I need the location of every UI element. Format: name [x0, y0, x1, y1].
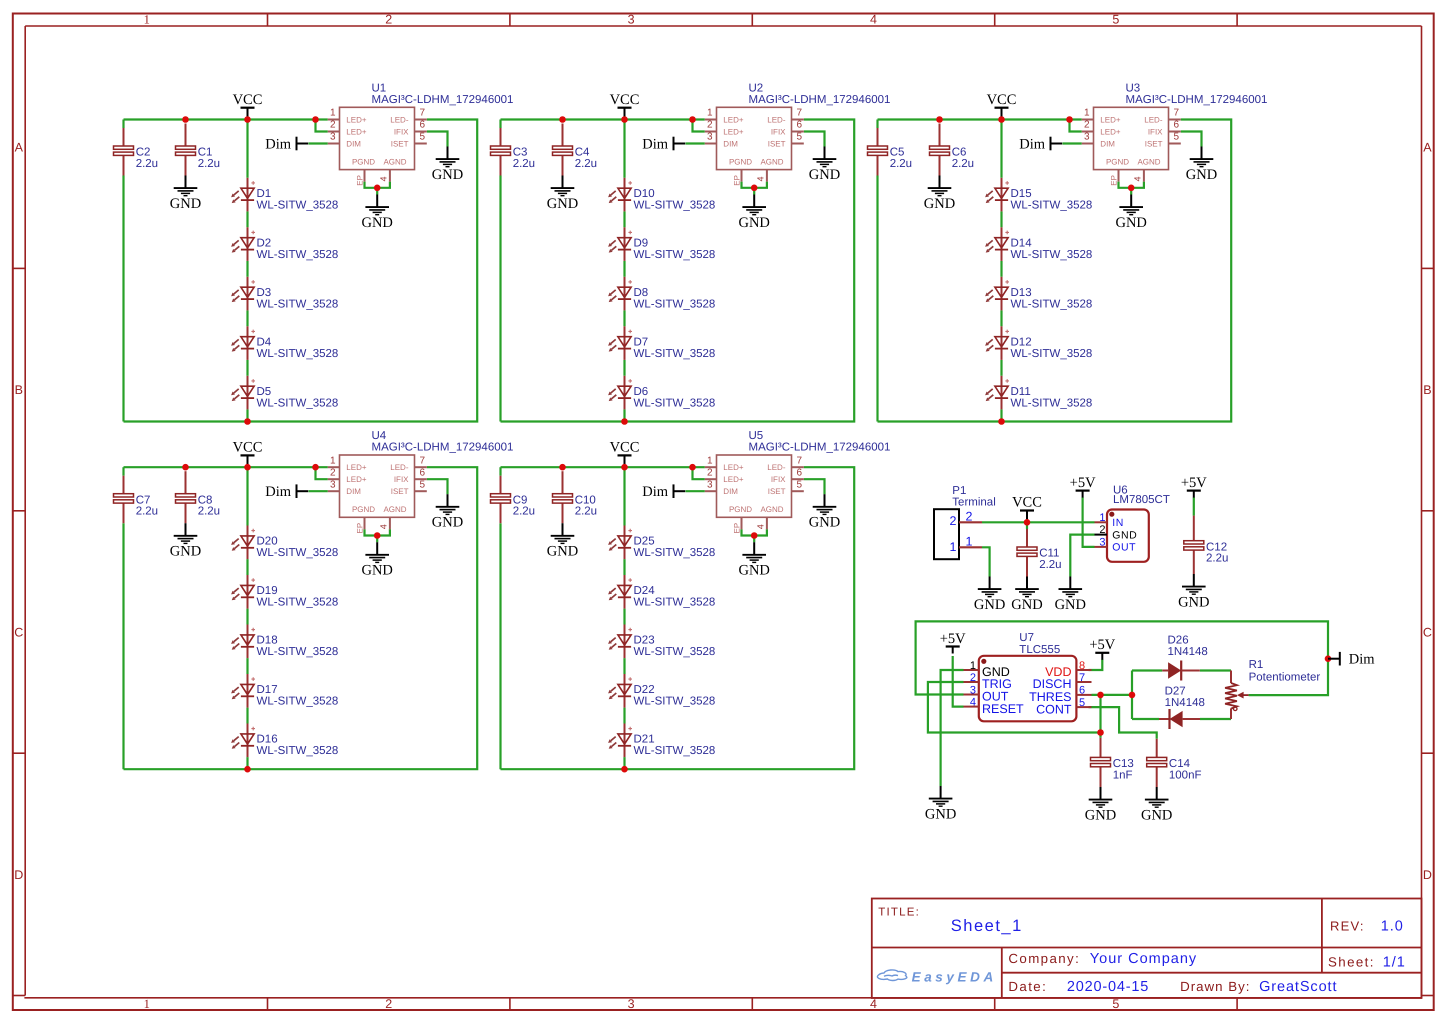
wire IFIX to gnd block 1 [427, 132, 448, 147]
wire diode/pot loop [1131, 671, 1133, 720]
svg-text:WL-SITW_3528: WL-SITW_3528 [634, 696, 716, 708]
svg-text:1: 1 [970, 660, 976, 672]
svg-text:P1: P1 [952, 485, 966, 497]
svg-text:D18: D18 [257, 635, 278, 647]
svg-text:4: 4 [970, 696, 976, 708]
pin 7 stub [1169, 119, 1181, 121]
LED D13 WL-SITW_3528 [985, 277, 1092, 311]
svg-text:VCC: VCC [233, 92, 263, 108]
diode D27 1N4148 [1159, 686, 1205, 729]
junction Dim tap [1325, 655, 1332, 662]
svg-text:2.2u: 2.2u [136, 506, 158, 518]
svg-text:GND: GND [1186, 167, 1217, 183]
svg-text:PGND: PGND [352, 505, 375, 514]
svg-text:Sheet_1: Sheet_1 [951, 917, 1023, 935]
net flag Dim block 3 [1019, 137, 1062, 153]
svg-text:1: 1 [330, 108, 336, 119]
svg-text:AGND: AGND [760, 505, 783, 514]
pin 3 stub [705, 490, 717, 492]
wire LED string block 5 [623, 467, 625, 525]
svg-text:REV:: REV: [1330, 919, 1365, 934]
svg-text:WL-SITW_3528: WL-SITW_3528 [634, 745, 716, 757]
svg-text:LED+: LED+ [723, 115, 744, 124]
svg-text:WL-SITW_3528: WL-SITW_3528 [634, 398, 716, 410]
wire VCC rail net block 4 [124, 466, 328, 468]
svg-text:MAGI³C-LDHM_172946001: MAGI³C-LDHM_172946001 [749, 442, 891, 454]
svg-text:1: 1 [144, 997, 150, 1011]
svg-text:LED-: LED- [390, 463, 409, 472]
ground below C1 [170, 176, 201, 212]
svg-text:C6: C6 [952, 147, 967, 159]
svg-text:Potentiometer: Potentiometer [1249, 672, 1321, 684]
svg-text:B: B [1423, 383, 1431, 397]
junction EP/AGND tie [751, 532, 758, 539]
pin 5 stub [792, 143, 804, 145]
wire P1 pin1 to gnd [982, 547, 990, 576]
svg-text:2.2u: 2.2u [198, 506, 220, 518]
svg-text:U3: U3 [1126, 83, 1141, 95]
ground below C4 [547, 176, 578, 212]
junction EP/AGND tie [374, 532, 381, 539]
svg-text:RESET: RESET [982, 702, 1024, 716]
wire exposed pad gnd block 3 [1119, 182, 1144, 188]
svg-text:2: 2 [970, 672, 976, 684]
junction pin2 tap [1066, 116, 1073, 123]
svg-text:WL-SITW_3528: WL-SITW_3528 [257, 597, 339, 609]
svg-text:6: 6 [420, 120, 426, 131]
capacitor C9 2.2u [491, 476, 536, 524]
pin 6 stub [1169, 131, 1181, 133]
svg-text:2020-04-15: 2020-04-15 [1067, 979, 1149, 995]
title block [872, 899, 1422, 999]
pin 1 GND stub [964, 669, 979, 671]
svg-text:D13: D13 [1011, 287, 1032, 299]
LED D23 WL-SITW_3528 [608, 625, 715, 659]
junction VCC/LED tap [998, 116, 1005, 123]
svg-text:LED+: LED+ [723, 127, 744, 136]
svg-text:D21: D21 [634, 734, 655, 746]
svg-text:GND: GND [170, 196, 201, 212]
svg-text:Dim: Dim [1349, 652, 1376, 668]
wire THRES to C13 [1099, 695, 1101, 738]
LED D3 WL-SITW_3528 [231, 277, 338, 311]
svg-text:GND: GND [361, 563, 392, 579]
svg-text:D5: D5 [257, 386, 272, 398]
ground below IFIX [1186, 147, 1217, 183]
svg-text:2: 2 [385, 997, 392, 1011]
svg-text:2.2u: 2.2u [952, 158, 974, 170]
junction diode loop tap [1129, 692, 1136, 699]
capacitor C11 2.2u [1017, 529, 1062, 577]
svg-text:4: 4 [870, 997, 877, 1011]
svg-text:4: 4 [870, 13, 877, 27]
svg-text:WL-SITW_3528: WL-SITW_3528 [634, 597, 716, 609]
svg-text:7: 7 [797, 108, 803, 119]
svg-text:ISET: ISET [768, 487, 786, 496]
svg-text:2: 2 [707, 120, 713, 131]
svg-text:D26: D26 [1168, 635, 1189, 647]
svg-text:GreatScott: GreatScott [1259, 979, 1337, 995]
svg-text:WL-SITW_3528: WL-SITW_3528 [257, 249, 339, 261]
svg-text:GND: GND [1141, 807, 1172, 823]
svg-text:100nF: 100nF [1169, 769, 1202, 781]
svg-text:WL-SITW_3528: WL-SITW_3528 [1011, 249, 1093, 261]
svg-text:GND: GND [1115, 215, 1146, 231]
svg-text:3: 3 [1084, 132, 1090, 143]
svg-text:GND: GND [924, 196, 955, 212]
junction pin2 tap [312, 116, 319, 123]
pin 1 stub [328, 119, 340, 121]
svg-text:LED+: LED+ [346, 115, 367, 124]
LED D21 WL-SITW_3528 [608, 724, 715, 758]
pin 3 OUT stub [1095, 546, 1108, 548]
junction pin2 tap [689, 464, 696, 471]
svg-text:ISET: ISET [391, 487, 409, 496]
ground below U6 GND [1055, 577, 1086, 613]
svg-text:WL-SITW_3528: WL-SITW_3528 [1011, 398, 1093, 410]
svg-text:3: 3 [330, 479, 336, 490]
svg-text:U5: U5 [749, 430, 764, 442]
svg-text:PGND: PGND [352, 158, 375, 167]
pin 2 GND stub [1095, 534, 1108, 536]
svg-text:1nF: 1nF [1113, 769, 1133, 781]
capacitor C1 2.2u [176, 124, 221, 176]
net flag Dim 555 output [1328, 652, 1375, 668]
pin 2 stub [328, 131, 340, 133]
svg-text:+5V: +5V [1070, 475, 1096, 491]
svg-text:1: 1 [144, 13, 150, 27]
svg-text:TLC555: TLC555 [1019, 644, 1060, 656]
svg-text:5: 5 [1174, 132, 1180, 143]
svg-text:MAGI³C-LDHM_172946001: MAGI³C-LDHM_172946001 [372, 94, 514, 106]
LED D7 WL-SITW_3528 [608, 326, 715, 360]
svg-text:1N4148: 1N4148 [1165, 697, 1205, 709]
wire LED- return loop block 4 [124, 467, 478, 769]
svg-text:2: 2 [707, 467, 713, 478]
pin 7 stub [415, 119, 427, 121]
LED D22 WL-SITW_3528 [608, 674, 715, 708]
wire LED string block 3 [1000, 120, 1002, 178]
svg-text:DISCH: DISCH [1033, 677, 1072, 691]
svg-text:LED+: LED+ [1100, 115, 1121, 124]
svg-text:1N4148: 1N4148 [1168, 646, 1208, 658]
wire exposed pad gnd block 2 [742, 182, 767, 188]
pin PGND stub [364, 170, 366, 182]
svg-text:WL-SITW_3528: WL-SITW_3528 [257, 200, 339, 212]
ground below C8 [170, 523, 201, 559]
power flag VCC block 4 [233, 440, 263, 468]
wire +5V to U6 OUT [1083, 497, 1095, 547]
svg-text:+5V: +5V [1089, 637, 1115, 653]
svg-text:IFIX: IFIX [771, 127, 786, 136]
svg-text:C2: C2 [136, 147, 151, 159]
ground below exposed pad [738, 195, 769, 231]
capacitor C2 2.2u [114, 128, 159, 176]
svg-text:2: 2 [1084, 120, 1090, 131]
net flag Dim block 5 [642, 484, 685, 500]
svg-text:5: 5 [1112, 997, 1119, 1011]
wire +5V to RESET [953, 656, 964, 707]
svg-text:3: 3 [628, 997, 635, 1011]
svg-text:6: 6 [797, 467, 803, 478]
wire +5V to C12 [1193, 497, 1195, 515]
svg-text:D2: D2 [257, 238, 272, 250]
capacitor C5 2.2u [868, 128, 913, 176]
svg-text:EP: EP [355, 523, 364, 534]
svg-text:2.2u: 2.2u [1039, 559, 1061, 571]
wire pin2 branch block 3 [1070, 120, 1082, 132]
pin PGND stub [364, 517, 366, 529]
power flag +5V at U7 VDD [1089, 637, 1115, 660]
svg-text:PGND: PGND [729, 158, 752, 167]
svg-text:LED-: LED- [390, 115, 409, 124]
LED D20 WL-SITW_3528 [231, 526, 338, 560]
svg-text:D: D [1423, 868, 1432, 882]
svg-text:GND: GND [738, 215, 769, 231]
power flag VCC power section [1012, 495, 1042, 523]
svg-text:OUT: OUT [1112, 542, 1136, 554]
wire LED- return loop block 1 [124, 120, 478, 422]
svg-text:LED+: LED+ [346, 475, 367, 484]
junction LED string bottom [621, 418, 628, 425]
svg-text:7: 7 [420, 108, 426, 119]
svg-text:D25: D25 [634, 536, 655, 548]
capacitor C14 100nF [1147, 739, 1202, 787]
wire exposed pad gnd block 5 [742, 529, 767, 535]
svg-text:LED-: LED- [1144, 115, 1163, 124]
LED D16 WL-SITW_3528 [231, 724, 338, 758]
svg-text:A: A [1423, 141, 1432, 155]
svg-text:GND: GND [432, 515, 463, 531]
svg-text:GND: GND [1055, 597, 1086, 613]
svg-text:WL-SITW_3528: WL-SITW_3528 [634, 249, 716, 261]
svg-text:WL-SITW_3528: WL-SITW_3528 [257, 398, 339, 410]
wire VCC rail net block 5 [501, 466, 705, 468]
pin 1 IN stub [1095, 521, 1108, 523]
pin 1 stub [705, 119, 717, 121]
wire THRES net [1092, 694, 1133, 696]
svg-text:IFIX: IFIX [771, 475, 786, 484]
svg-text:IFIX: IFIX [1148, 127, 1163, 136]
capacitor C10 2.2u [553, 471, 598, 523]
svg-text:1: 1 [1099, 512, 1105, 524]
row ticks right [1422, 267, 1434, 269]
wire VCC input net [982, 521, 1095, 523]
svg-text:EP: EP [355, 175, 364, 186]
svg-text:U7: U7 [1019, 632, 1034, 644]
IC U1 MAGI³C-LDHM_172946001 [328, 83, 514, 186]
svg-text:Your Company: Your Company [1090, 951, 1197, 967]
pin 2 TRIG stub [964, 681, 979, 683]
svg-text:GND: GND [738, 563, 769, 579]
junction C8 tap [182, 464, 189, 471]
LED D15 WL-SITW_3528 [985, 178, 1092, 212]
svg-text:+5V: +5V [940, 631, 966, 647]
pin 2 stub [705, 131, 717, 133]
power flag +5V at C12 [1181, 475, 1207, 498]
svg-text:4: 4 [379, 176, 389, 181]
svg-text:D16: D16 [257, 734, 278, 746]
row ticks left [13, 267, 25, 269]
svg-text:VCC: VCC [233, 440, 263, 456]
junction EP/AGND tie [1128, 185, 1135, 192]
svg-text:GND: GND [925, 806, 956, 822]
svg-text:1.0: 1.0 [1381, 919, 1404, 935]
svg-text:VCC: VCC [610, 440, 640, 456]
svg-text:2: 2 [950, 514, 957, 528]
junction pin2 tap [312, 464, 319, 471]
pin 6 stub [792, 131, 804, 133]
svg-text:ISET: ISET [1145, 139, 1163, 148]
wire LED- return loop block 3 [878, 120, 1232, 422]
svg-text:D8: D8 [634, 287, 649, 299]
pin 5 CONT stub [1076, 706, 1091, 708]
timer IC U7 TLC555 [964, 632, 1092, 721]
svg-text:3: 3 [707, 132, 713, 143]
svg-text:C10: C10 [575, 494, 596, 506]
svg-text:D7: D7 [634, 337, 649, 349]
LED D24 WL-SITW_3528 [608, 575, 715, 609]
junction LED string bottom [998, 418, 1005, 425]
pin 4 RESET stub [964, 706, 979, 708]
wire LED string block 4 [246, 467, 248, 525]
LED D18 WL-SITW_3528 [231, 625, 338, 659]
pin 1 stub [1082, 119, 1094, 121]
svg-text:D: D [14, 868, 23, 882]
svg-text:WL-SITW_3528: WL-SITW_3528 [634, 646, 716, 658]
svg-text:DIM: DIM [346, 139, 361, 148]
svg-text:WL-SITW_3528: WL-SITW_3528 [634, 299, 716, 311]
pin 3 stub [1082, 143, 1094, 145]
svg-text:Drawn By:: Drawn By: [1180, 979, 1250, 994]
IC U4 MAGI³C-LDHM_172946001 [328, 430, 514, 533]
LED D12 WL-SITW_3528 [985, 326, 1092, 360]
LED D25 WL-SITW_3528 [608, 526, 715, 560]
svg-text:C11: C11 [1039, 548, 1059, 560]
svg-text:C14: C14 [1169, 758, 1191, 770]
svg-text:D1: D1 [257, 188, 272, 200]
capacitor C12 2.2u [1184, 516, 1229, 574]
svg-text:1: 1 [966, 534, 973, 548]
svg-text:2.2u: 2.2u [575, 158, 597, 170]
junction LED string bottom [244, 418, 251, 425]
ground below IFIX [809, 147, 840, 183]
svg-text:B: B [15, 383, 23, 397]
svg-text:D22: D22 [634, 684, 655, 696]
svg-text:WL-SITW_3528: WL-SITW_3528 [257, 547, 339, 559]
pin PGND stub [741, 517, 743, 529]
IC U5 MAGI³C-LDHM_172946001 [705, 430, 891, 533]
ground below IFIX [432, 147, 463, 183]
LED D10 WL-SITW_3528 [608, 178, 715, 212]
ground below exposed pad [361, 195, 392, 231]
svg-text:VCC: VCC [610, 92, 640, 108]
svg-text:D3: D3 [257, 287, 272, 299]
svg-text:D12: D12 [1011, 337, 1032, 349]
svg-text:ISET: ISET [768, 139, 786, 148]
LED D9 WL-SITW_3528 [608, 227, 715, 261]
svg-text:Date:: Date: [1008, 979, 1047, 994]
svg-text:3: 3 [707, 479, 713, 490]
svg-text:4: 4 [756, 524, 766, 529]
svg-text:Company:: Company: [1008, 951, 1080, 966]
svg-text:Dim: Dim [265, 137, 292, 153]
svg-text:LED+: LED+ [1100, 127, 1121, 136]
svg-text:GND: GND [170, 544, 201, 560]
svg-text:C13: C13 [1113, 758, 1134, 770]
junction LED string bottom [244, 766, 251, 773]
svg-text:WL-SITW_3528: WL-SITW_3528 [257, 696, 339, 708]
svg-text:GND: GND [547, 544, 578, 560]
junction VCC/LED tap [621, 116, 628, 123]
svg-text:2: 2 [330, 120, 336, 131]
svg-text:GND: GND [809, 515, 840, 531]
svg-text:MAGI³C-LDHM_172946001: MAGI³C-LDHM_172946001 [749, 94, 891, 106]
wire DIM net block 3 [1063, 142, 1082, 144]
svg-text:DIM: DIM [723, 487, 738, 496]
junction C10 tap [559, 464, 566, 471]
svg-text:D17: D17 [257, 684, 278, 696]
LED D17 WL-SITW_3528 [231, 674, 338, 708]
wire U6 GND pin to gnd [1070, 535, 1094, 577]
svg-text:5: 5 [420, 479, 426, 490]
wire OUT to Dim loop [916, 621, 1328, 695]
svg-text:C7: C7 [136, 494, 151, 506]
svg-text:D4: D4 [257, 337, 272, 349]
pin 1 stub [328, 466, 340, 468]
ground below C6 [924, 176, 955, 212]
svg-text:D10: D10 [634, 188, 655, 200]
svg-text:PGND: PGND [729, 505, 752, 514]
svg-text:IFIX: IFIX [394, 127, 409, 136]
wire LED string block 2 [623, 120, 625, 178]
capacitor C8 2.2u [176, 471, 221, 523]
svg-text:1: 1 [707, 108, 713, 119]
pin PGND stub [1118, 170, 1120, 182]
wire pin2 branch block 4 [316, 467, 328, 479]
svg-text:7: 7 [420, 455, 426, 466]
power flag +5V at U7 RESET [940, 631, 966, 654]
svg-text:D9: D9 [634, 238, 649, 250]
svg-text:2.2u: 2.2u [198, 158, 220, 170]
svg-text:7: 7 [1174, 108, 1180, 119]
svg-text:Terminal: Terminal [952, 497, 995, 509]
svg-text:WL-SITW_3528: WL-SITW_3528 [1011, 299, 1093, 311]
ground below C10 [547, 523, 578, 559]
svg-text:WL-SITW_3528: WL-SITW_3528 [257, 348, 339, 360]
IC U3 MAGI³C-LDHM_172946001 [1082, 83, 1268, 186]
svg-text:4: 4 [756, 176, 766, 181]
svg-text:DIM: DIM [723, 139, 738, 148]
svg-text:AGND: AGND [760, 158, 783, 167]
svg-text:DIM: DIM [346, 487, 361, 496]
IC U2 MAGI³C-LDHM_172946001 [705, 83, 891, 186]
junction VCC/LED tap [244, 464, 251, 471]
svg-text:LED+: LED+ [346, 127, 367, 136]
junction TRIG/C13 tap [1097, 729, 1104, 736]
pin 7 DISCH stub [1076, 681, 1091, 683]
pin AGND stub [766, 170, 768, 182]
wire TRIG net [928, 682, 1101, 733]
LED D14 WL-SITW_3528 [985, 227, 1092, 261]
svg-text:+5V: +5V [1181, 475, 1207, 491]
svg-text:1: 1 [950, 540, 957, 554]
wire IFIX to gnd block 4 [427, 479, 448, 494]
wire pin2 branch block 2 [693, 120, 705, 132]
svg-text:GND: GND [809, 167, 840, 183]
ground below exposed pad [1115, 195, 1146, 231]
net flag Dim block 4 [265, 484, 308, 500]
